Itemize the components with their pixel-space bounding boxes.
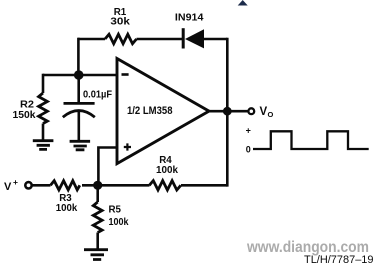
svg-text:150k: 150k <box>13 110 36 121</box>
wire top-left corner to R1 <box>78 38 105 41</box>
terminal V+ open circle <box>25 182 31 188</box>
svg-text:0: 0 <box>246 145 251 155</box>
wire R2 to ground <box>42 124 45 141</box>
resistor R2 <box>39 93 48 124</box>
resistor R5 <box>93 202 102 232</box>
op-amp inverting input minus sign <box>122 73 129 76</box>
capacitor C1 curved plate <box>63 111 95 118</box>
wire V+ to R3 <box>32 184 51 187</box>
wire non-inverting input to node B <box>98 148 117 186</box>
svg-text:R5: R5 <box>109 205 122 216</box>
output square waveform <box>253 131 369 149</box>
svg-text:100k: 100k <box>156 165 178 176</box>
terminal Vo open circle <box>248 108 254 114</box>
diode IN914 cathode bar <box>182 28 185 48</box>
wire node A down to capacitor <box>77 75 80 102</box>
wire capacitor to ground <box>78 110 81 141</box>
wire right vertical rail <box>226 38 229 187</box>
node B junction dot <box>93 181 102 190</box>
svg-text:100k: 100k <box>109 217 129 228</box>
diode IN914 triangle <box>185 29 204 48</box>
ground below R2 <box>33 141 54 150</box>
wire node B down to R5 <box>96 185 99 202</box>
svg-text:V: V <box>4 181 12 193</box>
svg-text:IN914: IN914 <box>175 13 204 24</box>
svg-text:O: O <box>268 110 274 119</box>
svg-text:V: V <box>260 106 268 118</box>
svg-text:R2: R2 <box>20 100 34 111</box>
resistor R4 <box>149 181 180 190</box>
wire R4 to right rail <box>181 184 227 187</box>
wire diode to right vertical rail <box>204 38 227 41</box>
output junction dot <box>223 107 232 116</box>
wire R1 to diode <box>137 38 183 41</box>
svg-text:0.01µF: 0.01µF <box>83 88 113 100</box>
svg-text:TL/H/7787–19: TL/H/7787–19 <box>304 254 374 265</box>
ground below capacitor <box>70 141 91 150</box>
wire R5 to ground <box>96 233 99 250</box>
svg-text:1/2 LM358: 1/2 LM358 <box>127 105 173 117</box>
ground below R5 <box>84 250 108 260</box>
op-amp U1 triangle <box>117 59 209 164</box>
navy scroll triangle <box>238 0 248 6</box>
wire down to R2 <box>42 74 45 93</box>
svg-text:100k: 100k <box>56 203 78 214</box>
wire R3 to node B and on to R4 <box>82 184 150 187</box>
svg-text:30k: 30k <box>110 16 130 27</box>
op-amp non-inverting input plus sign <box>124 143 131 150</box>
wire left vertical from top corner down to node A <box>77 38 80 75</box>
node A junction dot <box>74 70 84 80</box>
capacitor C1 top plate <box>64 102 95 105</box>
resistor R1 <box>105 34 136 43</box>
svg-text:+: + <box>246 126 251 136</box>
wire op-amp output to Vo terminal <box>209 110 248 113</box>
wire node A horizontal (R2 branch to inverting input) <box>43 74 117 77</box>
resistor R3 <box>51 181 80 190</box>
svg-text:+: + <box>13 177 18 187</box>
